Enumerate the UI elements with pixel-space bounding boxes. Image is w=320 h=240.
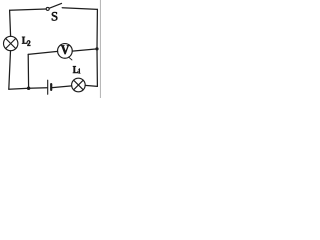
wire voltmeter right bbox=[72, 49, 97, 51]
switch S bbox=[46, 7, 49, 10]
battery cell bbox=[48, 80, 52, 94]
wire left edge upper bbox=[10, 10, 11, 36]
voltmeter V1 bbox=[58, 44, 73, 60]
wire left edge lower bbox=[9, 51, 11, 89]
wire battery to lamp L1 bbox=[52, 86, 71, 88]
wire top right bbox=[62, 8, 97, 10]
wire top left bbox=[10, 9, 46, 10]
wire lamp L1 to corner bbox=[85, 85, 97, 86]
node junction right bbox=[95, 47, 98, 50]
lamp L1 bbox=[72, 78, 86, 92]
label S bbox=[52, 12, 57, 21]
label L1 bbox=[73, 66, 78, 73]
label L2 bbox=[22, 37, 27, 44]
wire voltmeter branch vertical bbox=[27, 54, 29, 88]
wire voltmeter left bbox=[28, 51, 57, 54]
node junction bottom bbox=[27, 86, 31, 90]
wire right edge bbox=[96, 9, 98, 86]
wire bottom left bbox=[9, 88, 47, 89]
lamp L2 bbox=[4, 36, 18, 50]
label V bbox=[61, 45, 69, 54]
